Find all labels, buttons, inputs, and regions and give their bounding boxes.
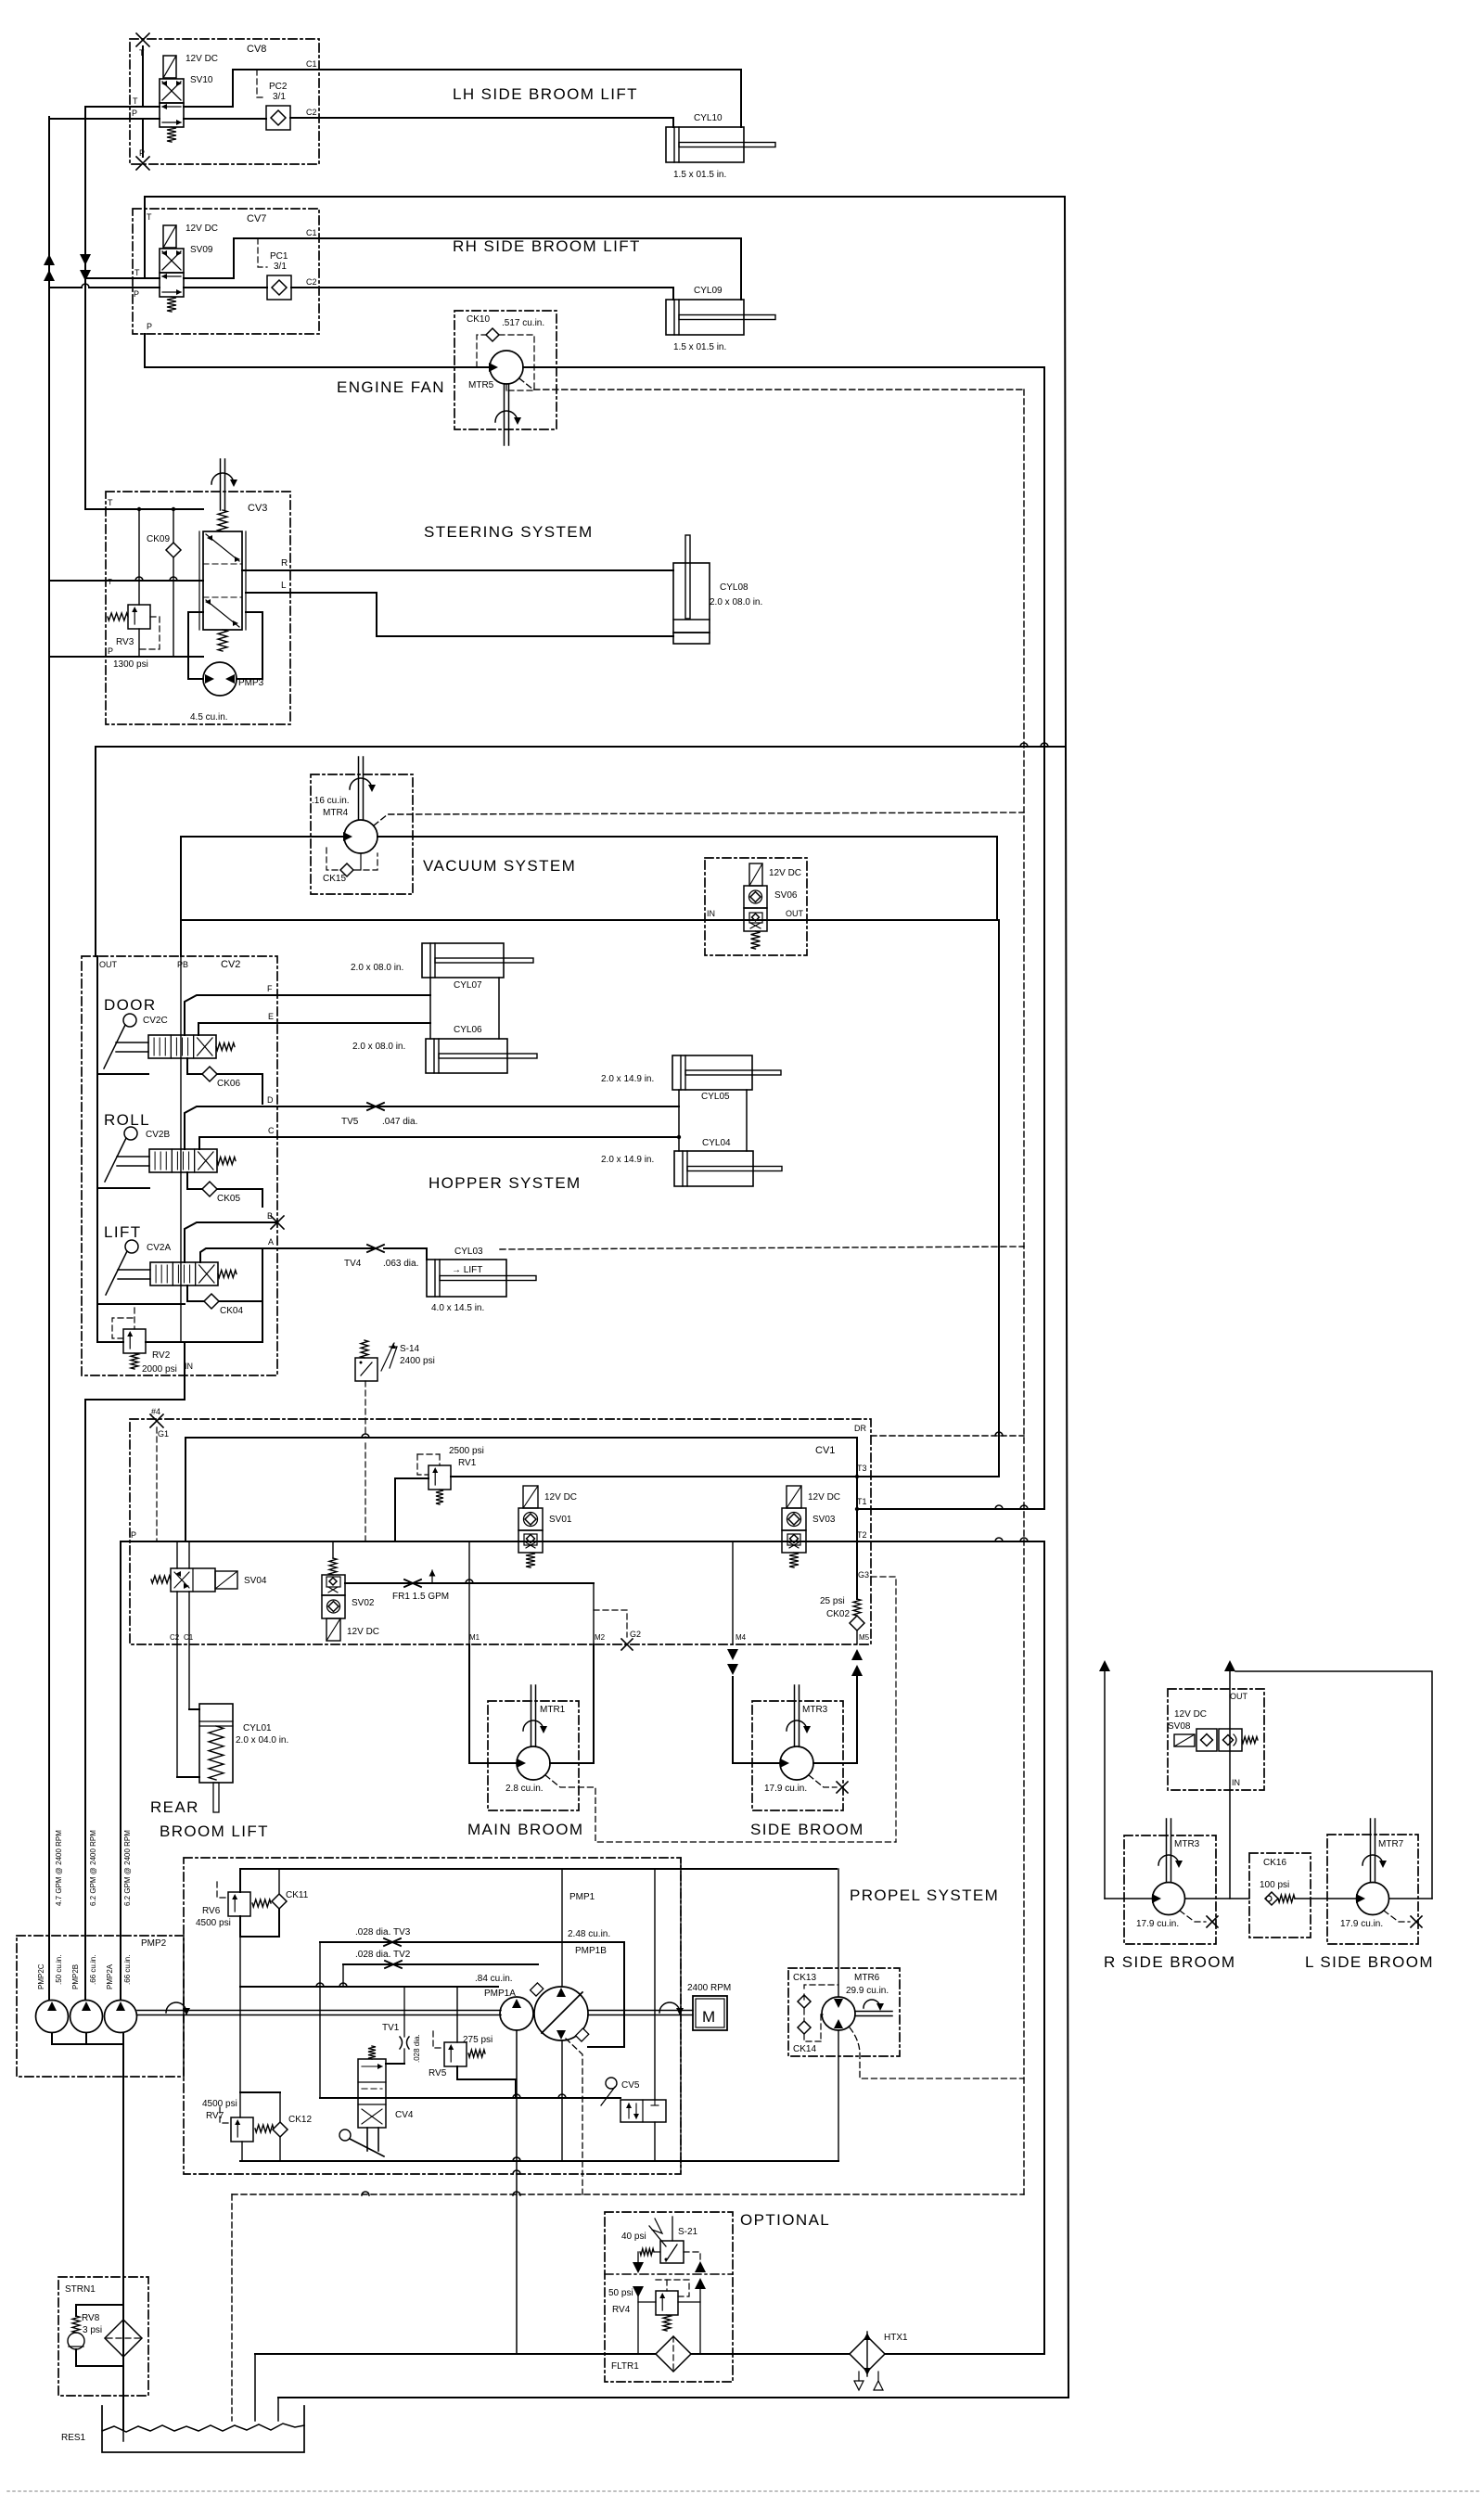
propel block (184, 1858, 681, 2174)
svg-text:ENGINE FAN: ENGINE FAN (337, 378, 445, 396)
svg-text:IN: IN (1232, 1778, 1240, 1787)
cylinder CYL03 (427, 1260, 506, 1297)
svg-text:S-14: S-14 (400, 1344, 420, 1354)
pump PMP2C (36, 2001, 69, 2033)
CK dashed wires (804, 1985, 838, 1989)
svg-text:MTR1: MTR1 (540, 1705, 566, 1715)
CV5 wires (654, 1869, 656, 2100)
svg-text:CV4: CV4 (395, 2110, 414, 2120)
svg-text:4.5 cu.in.: 4.5 cu.in. (190, 712, 228, 723)
svg-text:G1: G1 (158, 1429, 169, 1439)
wire C2 to CYL10 (319, 118, 673, 127)
MTR7 wires (1389, 1898, 1432, 1899)
port C2 wire (290, 117, 319, 119)
wire T from bus (85, 508, 203, 510)
svg-text:L SIDE BROOM: L SIDE BROOM (1305, 1953, 1434, 1971)
bus return middle lower (1043, 1542, 1045, 2354)
wire T to bus (85, 106, 130, 108)
svg-text:G2: G2 (630, 1630, 641, 1639)
air bleed symbols (858, 2372, 860, 2381)
svg-text:F: F (267, 984, 273, 993)
svg-text:RV5: RV5 (429, 2068, 447, 2078)
svg-text:.063 dia.: .063 dia. (383, 1259, 418, 1269)
svg-text:IN: IN (185, 1362, 193, 1371)
svg-text:CV2C: CV2C (143, 1016, 168, 1026)
TV3 TV2 verticals (319, 1942, 321, 2098)
relief valve RV6 (228, 1892, 250, 1916)
engine shaft (137, 2010, 501, 2012)
svg-text:12V DC: 12V DC (808, 1492, 840, 1503)
svg-text:RV1: RV1 (458, 1458, 477, 1468)
wire E (198, 1023, 277, 1035)
svg-text:25 psi: 25 psi (820, 1596, 845, 1606)
S-14 dashed down (365, 1381, 366, 1438)
wire PMP2B bus lower (84, 1400, 86, 2000)
MTR4 drain dashed (374, 812, 1024, 825)
outer box left edge (95, 747, 96, 956)
svg-text:SV09: SV09 (190, 245, 213, 255)
solenoid valve SV10 (163, 56, 176, 78)
svg-text:→ LIFT: → LIFT (452, 1265, 482, 1275)
svg-text:C1: C1 (184, 1633, 194, 1642)
P rail (121, 1541, 1044, 1542)
MTR3R drain (1180, 1911, 1206, 1922)
svg-text:CK05: CK05 (217, 1194, 240, 1204)
valve SV01 (523, 1486, 538, 1508)
svg-text:G3: G3 (858, 1570, 869, 1580)
check valve CK12 (279, 2092, 281, 2122)
FR1 line (345, 1582, 594, 1584)
svg-text:PMP2B: PMP2B (71, 1964, 80, 1989)
svg-text:2.0 x 14.9 in.: 2.0 x 14.9 in. (601, 1074, 654, 1084)
svg-text:M1: M1 (469, 1633, 480, 1642)
MTR3 shaft (794, 1685, 796, 1746)
svg-text:SV03: SV03 (812, 1515, 836, 1525)
svg-text:SIDE BROOM: SIDE BROOM (750, 1821, 864, 1838)
motor MTR6 (822, 1997, 855, 2030)
svg-text:A: A (268, 1237, 274, 1247)
orifice FR1 (404, 1580, 421, 1587)
motor MTR7 (1357, 1883, 1389, 1915)
wire T line CV7 (133, 277, 160, 279)
svg-text:VACUUM SYSTEM: VACUUM SYSTEM (423, 857, 576, 875)
orifice TV3 line (320, 1941, 562, 1943)
wires CYL04-05 (678, 1090, 680, 1151)
svg-text:12V DC: 12V DC (1174, 1709, 1207, 1720)
wires CYL06-07 (429, 978, 431, 1039)
pump PMP2A (105, 2001, 137, 2033)
MTR3 drain dashed (809, 1775, 837, 1787)
svg-text:HTX1: HTX1 (884, 2333, 908, 2343)
svg-text:OUT: OUT (786, 909, 804, 918)
check block CK16 (1249, 1853, 1311, 1938)
svg-text:T: T (133, 96, 138, 106)
svg-text:CK04: CK04 (220, 1306, 243, 1316)
svg-text:PMP1: PMP1 (569, 1892, 595, 1902)
svg-text:SV08: SV08 (1168, 1721, 1191, 1732)
wire PMP2A bus (120, 1541, 122, 2000)
C1 C2 wires to CYL01 (188, 1592, 190, 1709)
svg-text:FLTR1: FLTR1 (611, 2361, 639, 2372)
check valve CK06 (187, 1058, 202, 1074)
svg-text:PMP2C: PMP2C (37, 1963, 45, 1989)
MTR1 drain dashed (545, 1775, 896, 1842)
check valve CK11 (278, 1869, 280, 1894)
RV7 loop (239, 1987, 241, 2092)
svg-text:LIFT: LIFT (104, 1223, 142, 1241)
svg-text:.028 dia.: .028 dia. (413, 2034, 421, 2063)
flow arrows up (44, 254, 55, 265)
svg-text:.66 cu.in.: .66 cu.in. (89, 1955, 97, 1985)
svg-text:PB: PB (177, 960, 188, 969)
check valve CK16 (1265, 1892, 1278, 1905)
svg-text:M2: M2 (595, 1633, 606, 1642)
MTR3R wires (1105, 1898, 1152, 1899)
svg-text:.84 cu.in.: .84 cu.in. (475, 1974, 513, 1984)
relief valve RV4 (656, 2291, 678, 2315)
charge rail (240, 1986, 498, 1988)
svg-text:C1: C1 (306, 59, 317, 69)
svg-text:CV5: CV5 (621, 2080, 640, 2091)
svg-text:.50 cu.in.: .50 cu.in. (55, 1955, 63, 1985)
LIFT valve left wire (97, 1303, 185, 1305)
svg-text:CK11: CK11 (286, 1890, 309, 1900)
suction rail (320, 2097, 620, 2099)
port P bottom CV7 (144, 334, 146, 367)
svg-text:P: P (131, 1530, 136, 1540)
wire SV06 line (181, 919, 997, 921)
DOOR valve wires (97, 1073, 148, 1075)
svg-text:SV10: SV10 (190, 75, 213, 85)
valve block SV08 (1168, 1689, 1264, 1790)
motor MTR3 side broom (780, 1746, 813, 1780)
motor MTR3 right (1153, 1883, 1185, 1915)
svg-text:MTR6: MTR6 (854, 1973, 880, 1983)
svg-text:P: P (139, 148, 145, 158)
svg-text:1.5 x 01.5 in.: 1.5 x 01.5 in. (673, 170, 726, 180)
svg-text:2.0 x 08.0 in.: 2.0 x 08.0 in. (352, 1042, 405, 1052)
M1 wire (468, 1541, 470, 1644)
svg-text:12V DC: 12V DC (185, 54, 218, 64)
svg-text:E: E (268, 1012, 274, 1021)
svg-text:CYL03: CYL03 (454, 1247, 483, 1257)
check valve CK14 (798, 2021, 811, 2034)
svg-text:.047 dia.: .047 dia. (382, 1117, 417, 1127)
wire T internal CV7 (144, 209, 146, 278)
R broom supply arrow (1099, 1660, 1110, 1671)
svg-text:MTR3: MTR3 (1174, 1839, 1200, 1849)
MTR7 drain (1384, 1911, 1410, 1922)
svg-text:CV3: CV3 (248, 503, 267, 514)
wire A to CYL03 (384, 1248, 427, 1260)
svg-text:MTR3: MTR3 (802, 1705, 828, 1715)
wire A (200, 1248, 277, 1262)
wire L line (290, 593, 673, 636)
fan shaft (504, 384, 505, 445)
RV2 wires (96, 1304, 98, 1342)
bottom return line (278, 2397, 1068, 2398)
svg-text:12V DC: 12V DC (769, 868, 801, 878)
optional block (605, 2212, 733, 2382)
svg-text:SV02: SV02 (352, 1598, 375, 1608)
reservoir RES1 (102, 2406, 304, 2452)
svg-text:M4: M4 (736, 1633, 747, 1642)
pump suction manifold (52, 2033, 123, 2044)
svg-text:REAR: REAR (150, 1798, 199, 1816)
MTR6 drain dashed (850, 2027, 1024, 2078)
svg-text:6.2 GPM @ 2400 RPM: 6.2 GPM @ 2400 RPM (89, 1830, 97, 1906)
pilot dashed PC1 (258, 238, 267, 267)
check valve CK15 (326, 848, 339, 870)
svg-text:3/1: 3/1 (273, 92, 286, 102)
svg-text:.16 cu.in.: .16 cu.in. (312, 796, 350, 806)
svg-text:CV8: CV8 (247, 44, 266, 55)
svg-text:2.0 x 14.9 in.: 2.0 x 14.9 in. (601, 1155, 654, 1165)
svg-text:FR1 1.5 GPM: FR1 1.5 GPM (392, 1592, 449, 1602)
return box RH (145, 197, 1068, 2398)
svg-text:T2: T2 (857, 1530, 867, 1540)
svg-text:12V DC: 12V DC (347, 1627, 379, 1637)
return header (240, 2160, 838, 2162)
svg-text:RH SIDE BROOM LIFT: RH SIDE BROOM LIFT (453, 237, 641, 255)
PMP1B suction (561, 2040, 563, 2098)
svg-text:50 psi: 50 psi (608, 2288, 633, 2298)
MTR1 shaft (531, 1685, 532, 1746)
svg-text:CYL07: CYL07 (454, 980, 482, 991)
check valve CK05 (187, 1172, 202, 1189)
wire P CV7 to bus (82, 284, 89, 288)
inner box top (185, 1438, 857, 1541)
svg-text:.028 dia. TV2: .028 dia. TV2 (355, 1950, 411, 1960)
svg-text:T3: T3 (857, 1464, 867, 1473)
svg-text:3/1: 3/1 (274, 262, 287, 272)
engine fan block (454, 311, 556, 429)
svg-text:.66 cu.in.: .66 cu.in. (123, 1955, 132, 1985)
svg-text:CK16: CK16 (1263, 1858, 1286, 1868)
valve SV03 (787, 1486, 801, 1508)
svg-text:SV04: SV04 (244, 1576, 267, 1586)
svg-text:RV8: RV8 (82, 2313, 100, 2323)
PB rail (180, 956, 182, 1342)
RV5 wires (456, 1987, 458, 2042)
return from right bus (885, 2353, 1044, 2355)
cylinder CYL07 (422, 943, 504, 978)
CYL03 drain dashed (500, 1247, 1024, 1249)
svg-text:40 psi: 40 psi (621, 2232, 646, 2242)
propel shaft right (588, 2010, 693, 2012)
svg-text:C1: C1 (306, 228, 317, 237)
orifice TV4 (367, 1245, 384, 1252)
svg-text:BROOM LIFT: BROOM LIFT (160, 1823, 269, 1840)
svg-text:C2: C2 (306, 277, 317, 287)
pump PMP2B (70, 2001, 103, 2033)
svg-text:CYL09: CYL09 (694, 286, 723, 296)
pump block PMP2 (17, 1936, 184, 2077)
G2 dashed (594, 1610, 627, 1637)
svg-text:PC1: PC1 (270, 251, 288, 262)
plug X bottom (136, 157, 149, 170)
T1 line (857, 1508, 1044, 1510)
check valve CK09 (173, 509, 174, 543)
svg-text:RV6: RV6 (202, 1906, 221, 1916)
svg-text:29.9 cu.in.: 29.9 cu.in. (846, 1986, 889, 1996)
svg-text:TV5: TV5 (341, 1117, 359, 1127)
wire vacuum supply (181, 837, 344, 956)
valve SV08 (1174, 1734, 1195, 1746)
arrows M4 (727, 1649, 738, 1660)
pilot dashed PC2 (257, 70, 266, 97)
svg-text:MTR4: MTR4 (323, 808, 349, 818)
wire C1 to CYL10 (319, 70, 741, 127)
svg-text:OUT: OUT (99, 960, 118, 969)
wire C1 to CYL09 (319, 238, 741, 300)
svg-text:12V DC: 12V DC (544, 1492, 577, 1503)
motor MTR5 (490, 351, 523, 384)
ROLL valve wires (97, 1187, 149, 1189)
steering spring bottom (218, 630, 227, 651)
DR dashed (871, 1435, 1024, 1437)
svg-text:IN: IN (707, 909, 715, 918)
motor block MTR3R (1124, 1835, 1216, 1944)
relief valve RV5 (444, 2042, 467, 2066)
S-14 dashed lower (365, 1443, 366, 1541)
svg-text:CK14: CK14 (793, 2044, 816, 2054)
svg-text:CV7: CV7 (247, 213, 266, 224)
svg-text:1.5 x 01.5 in.: 1.5 x 01.5 in. (673, 342, 726, 352)
MTR6 wires (838, 1869, 839, 1997)
svg-text:2.48 cu.in.: 2.48 cu.in. (568, 1929, 610, 1939)
electric motor M (693, 1996, 727, 2030)
valve SV02 (329, 1558, 337, 1575)
svg-text:STRN1: STRN1 (65, 2284, 96, 2295)
svg-text:CYL06: CYL06 (454, 1025, 482, 1035)
wire P through CV7 (184, 287, 267, 288)
wire SV10 to C1 (184, 70, 319, 107)
svg-text:2400 RPM: 2400 RPM (687, 1983, 731, 1993)
wire D connect (678, 1106, 679, 1107)
svg-text:T: T (108, 498, 113, 507)
M4 wire (732, 1541, 734, 1644)
svg-text:.517 cu.in.: .517 cu.in. (502, 318, 544, 328)
svg-text:2000 psi: 2000 psi (142, 1364, 177, 1375)
solenoid valve SV04 (151, 1576, 171, 1583)
svg-text:MTR7: MTR7 (1378, 1839, 1404, 1849)
wire D (185, 1106, 678, 1149)
wire R line (242, 569, 673, 571)
svg-text:RV2: RV2 (152, 1350, 171, 1361)
svg-text:CK13: CK13 (793, 1973, 816, 1983)
MTR1 wires (469, 1644, 517, 1763)
svg-text:L: L (281, 581, 287, 591)
wire fan supply (145, 366, 490, 368)
wire P through valve (184, 118, 266, 120)
wire internal vertical (856, 1438, 858, 1599)
svg-text:ROLL: ROLL (104, 1111, 150, 1129)
svg-text:CK02: CK02 (826, 1609, 850, 1619)
svg-text:OPTIONAL: OPTIONAL (740, 2211, 830, 2229)
svg-text:P: P (132, 109, 137, 118)
wire T internal (142, 46, 144, 107)
svg-text:17.9 cu.in.: 17.9 cu.in. (1340, 1919, 1383, 1929)
svg-text:CYL04: CYL04 (702, 1138, 731, 1148)
motor MTR1 (517, 1746, 550, 1780)
svg-text:P: P (134, 289, 139, 299)
RV6 CK11 loop (240, 1909, 279, 1937)
cylinder CYL01 (199, 1704, 233, 1783)
hand valve CV2A (125, 1240, 138, 1253)
pump PMP1B variable (534, 1987, 588, 2040)
svg-text:.028 dia. TV3: .028 dia. TV3 (355, 1927, 411, 1938)
svg-text:RV4: RV4 (612, 2305, 631, 2315)
junction dots (137, 507, 141, 511)
S-21 right arrow (684, 2252, 700, 2260)
arrows M5 (851, 1649, 863, 1660)
svg-text:STEERING SYSTEM: STEERING SYSTEM (424, 523, 594, 541)
svg-text:CV2: CV2 (221, 959, 240, 970)
svg-text:SV01: SV01 (549, 1515, 572, 1525)
hand valve CV2C (123, 1014, 136, 1027)
svg-text:CK12: CK12 (288, 2115, 312, 2125)
svg-text:RV7: RV7 (206, 2111, 224, 2121)
wire P line (130, 118, 160, 120)
wire B plug (185, 1222, 277, 1262)
valve block CV7 (133, 209, 319, 334)
svg-text:MAIN BROOM: MAIN BROOM (467, 1821, 583, 1838)
wire P line CV7 (133, 287, 160, 288)
svg-text:LH SIDE BROOM LIFT: LH SIDE BROOM LIFT (453, 85, 638, 103)
wire E to cylinders (277, 1022, 430, 1024)
L broom line arrow (1224, 1660, 1235, 1671)
valve CV4 (358, 2059, 386, 2128)
cylinder CYL04 (674, 1151, 753, 1186)
svg-text:275 psi: 275 psi (463, 2035, 493, 2045)
wire fan to right bus (1043, 367, 1045, 1509)
svg-text:1300 psi: 1300 psi (113, 659, 148, 670)
svg-text:CK09: CK09 (147, 534, 170, 544)
valve SV06 (749, 863, 762, 886)
wire C2 to CYL09 (319, 288, 673, 300)
relief valve RV1 (429, 1465, 451, 1490)
svg-text:R: R (281, 558, 288, 569)
motor block MTR6 (788, 1968, 900, 2056)
svg-text:6.2 GPM @ 2400 RPM: 6.2 GPM @ 2400 RPM (123, 1830, 132, 1906)
svg-text:PMP2: PMP2 (141, 1938, 167, 1949)
svg-text:CYL08: CYL08 (720, 582, 748, 593)
S-21 spring (654, 2251, 660, 2253)
svg-text:2.8 cu.in.: 2.8 cu.in. (505, 1784, 544, 1794)
svg-text:D: D (267, 1095, 274, 1105)
cylinder CYL10 (666, 127, 744, 162)
pump PMP1A (500, 1997, 533, 2030)
plug #4 G1 (150, 1414, 163, 1427)
svg-text:OUT: OUT (1230, 1692, 1248, 1701)
svg-text:P: P (108, 646, 113, 656)
CYL01 wires (189, 1708, 199, 1710)
bus dashed drain (1023, 390, 1025, 2194)
RV1 wires (395, 1478, 429, 1541)
svg-text:DOOR: DOOR (104, 996, 157, 1014)
steering valve CV3 spool (203, 531, 242, 630)
propel top rail (240, 1869, 837, 1892)
vacuum outer box (96, 746, 1065, 748)
motor block MTR3 (752, 1701, 843, 1810)
svg-text:R SIDE BROOM: R SIDE BROOM (1104, 1953, 1235, 1971)
fan return dashed (519, 378, 1024, 390)
svg-text:2.0 x 08.0 in.: 2.0 x 08.0 in. (351, 963, 403, 973)
inner box right edge (680, 1858, 682, 2174)
svg-text:PMP1B: PMP1B (575, 1946, 607, 1956)
steering column shaft (218, 510, 227, 531)
